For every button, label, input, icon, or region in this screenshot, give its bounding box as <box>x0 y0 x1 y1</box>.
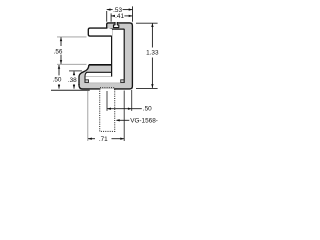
extension line left for .41 <box>110 13 112 21</box>
top wall + lip fill <box>106 22 133 29</box>
extension line hook face (gray) for .71 <box>87 91 89 142</box>
groove nub left <box>85 80 88 83</box>
svg-text:.71: .71 <box>99 136 108 143</box>
svg-text:.50: .50 <box>143 105 152 112</box>
dimension .53 <box>107 9 133 11</box>
profile outer outline (tube + flange) <box>79 23 132 89</box>
cavity interior edges <box>111 29 113 77</box>
svg-text:1.33: 1.33 <box>146 50 159 57</box>
dimension .50 bottom <box>107 108 142 110</box>
hide flange bottom edge across stem <box>100 88 114 89</box>
leg bottom edge <box>86 71 111 73</box>
svg-text:.41: .41 <box>115 13 124 20</box>
bottom leg fill <box>88 65 111 73</box>
svg-text:VG-1568-: VG-1568- <box>130 118 158 125</box>
svg-text:.56: .56 <box>54 48 63 55</box>
hook outer curve <box>79 65 89 85</box>
leader VG-1568 <box>117 119 130 121</box>
groove floor edge (light) <box>86 82 124 84</box>
extension line bottom shared .50/.38 <box>51 89 90 91</box>
hidden flange bottom across boss (dotted) <box>100 87 114 89</box>
tube left wall fill <box>111 29 112 76</box>
flange fill <box>79 83 133 90</box>
hook inner curve / groove left wall <box>85 72 87 83</box>
svg-text:.50: .50 <box>53 76 62 83</box>
extension line left for .53 <box>106 11 108 22</box>
dimension .38 <box>73 71 75 88</box>
extension line ledge for .38 <box>69 70 82 72</box>
dimension .71 <box>88 138 124 140</box>
groove top edge (light) <box>86 75 111 77</box>
groove nub right <box>121 80 124 83</box>
extension line right for .53/.41 <box>132 6 134 21</box>
extension line groove right, crosses VG leader <box>123 91 125 142</box>
extension line stem centerline <box>106 91 108 111</box>
dimension 1.33 <box>151 23 153 88</box>
dimension .50 left <box>58 65 60 89</box>
extension line flange right end <box>131 90 133 111</box>
extension line bottom for 1.33 <box>136 87 158 89</box>
leg top edge <box>89 64 112 66</box>
extension line bottom of .56 / top of .50 (gray) <box>57 63 87 65</box>
dimension .56 <box>60 37 62 64</box>
hook fill <box>79 65 89 89</box>
stem (hidden/dotted) <box>100 89 115 132</box>
extension line top of .56 (gray) <box>57 36 87 38</box>
notch (T-slot) in top wall <box>114 22 119 28</box>
svg-text:.38: .38 <box>68 77 77 84</box>
extension line top for 1.33 <box>136 22 158 24</box>
right wall fill <box>124 22 133 89</box>
dimension .41 <box>111 15 132 17</box>
extrusion profile drawing VG-1568 <box>0 0 205 150</box>
top arm (outlined, white) <box>88 28 112 36</box>
